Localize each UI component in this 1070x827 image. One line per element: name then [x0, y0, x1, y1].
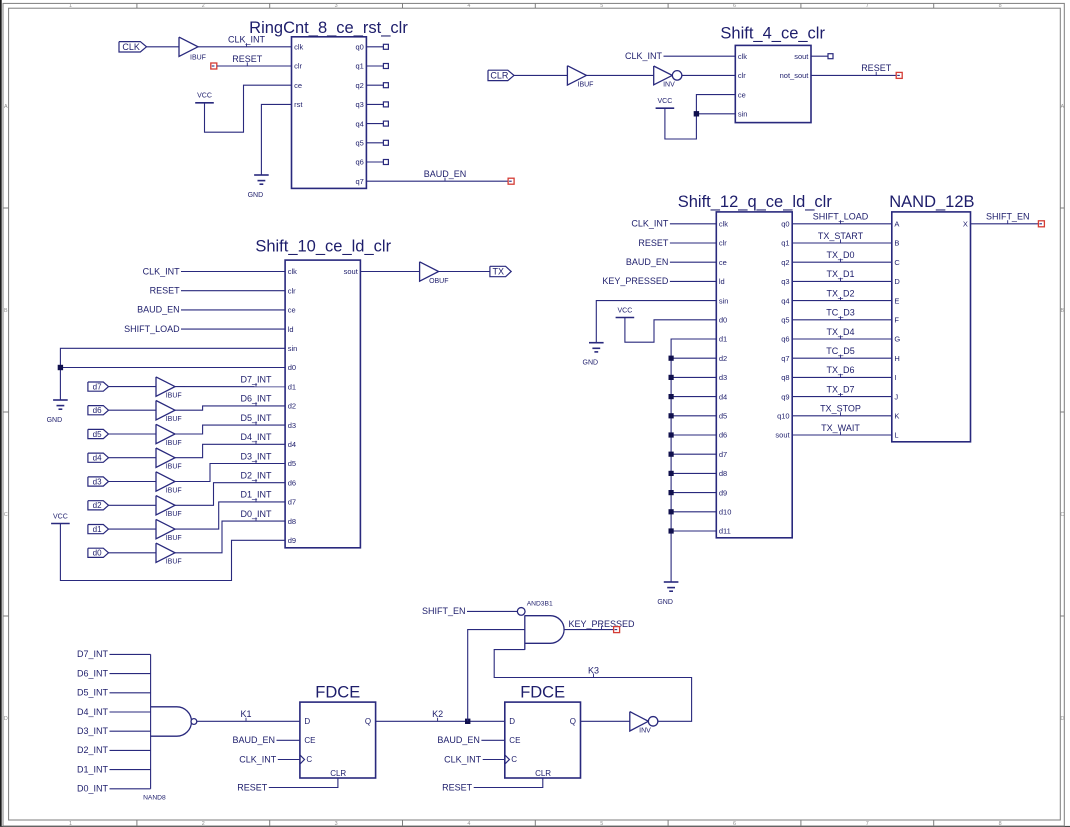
- wire NAND8 input bus: [150, 654, 152, 788]
- wire TX_WAIT net (qsout to L): [792, 434, 892, 436]
- svg-text:clr: clr: [738, 71, 746, 80]
- wire d11 stub: [671, 530, 716, 532]
- buffer OBUF: [420, 262, 439, 281]
- svg-text:CLK: CLK: [122, 42, 140, 52]
- svg-text:q4: q4: [781, 296, 789, 305]
- wire TX_D6 net (q8 to I): [792, 376, 892, 378]
- buffer IBUF (d2): [156, 496, 175, 515]
- svg-text:D0_INT: D0_INT: [240, 509, 272, 519]
- svg-text:6: 6: [733, 3, 736, 9]
- svg-text:IBUF: IBUF: [166, 535, 182, 542]
- wire SHIFT_EN net (X): [971, 223, 1039, 225]
- svg-text:RESET: RESET: [237, 782, 268, 792]
- svg-text:D: D: [304, 717, 310, 726]
- svg-text:sin: sin: [719, 296, 729, 305]
- wire KEY_PRESSED net: [564, 629, 613, 631]
- svg-text:RESET: RESET: [638, 238, 669, 248]
- svg-text:SHIFT_LOAD: SHIFT_LOAD: [124, 324, 180, 334]
- svg-text:d3: d3: [288, 421, 296, 430]
- block Shift_10_ce_ld_clr: [285, 260, 360, 548]
- svg-text:q4: q4: [355, 119, 363, 128]
- block RingCnt_8_ce_rst_clr: [292, 37, 367, 189]
- svg-text:5: 5: [600, 3, 603, 9]
- wire TX_D7 net (q9 to J): [792, 396, 892, 398]
- svg-text:D5_INT: D5_INT: [240, 413, 272, 423]
- svg-text:q5: q5: [355, 139, 363, 148]
- input connector d6: [88, 406, 109, 415]
- svg-text:CLR: CLR: [535, 769, 551, 778]
- svg-text:BAUD_EN: BAUD_EN: [137, 305, 180, 315]
- junction (d11): [669, 528, 674, 533]
- svg-text:6: 6: [733, 821, 736, 827]
- svg-text:4: 4: [467, 3, 470, 9]
- input connector d7: [88, 382, 109, 391]
- svg-text:CLK_INT: CLK_INT: [625, 51, 663, 61]
- wire K3 net: [494, 650, 691, 722]
- wire d2 to IBUF: [109, 504, 157, 506]
- svg-text:GND: GND: [583, 360, 599, 367]
- svg-text:B: B: [4, 308, 8, 314]
- svg-text:TX_WAIT: TX_WAIT: [821, 423, 860, 433]
- svg-text:VCC: VCC: [658, 98, 673, 105]
- svg-text:d11: d11: [719, 527, 731, 536]
- svg-text:SHIFT_EN: SHIFT_EN: [422, 606, 466, 616]
- svg-text:d6: d6: [288, 478, 296, 487]
- wire RESET to clr: [217, 65, 292, 67]
- wire sin to GND (Shift_12): [596, 301, 716, 343]
- buffer IBUF (d6): [156, 401, 175, 420]
- svg-text:D: D: [1060, 716, 1064, 722]
- block NAND_12B: [892, 212, 971, 442]
- svg-text:NAND8: NAND8: [143, 794, 166, 801]
- svg-text:d0: d0: [93, 549, 102, 558]
- svg-text:q7: q7: [355, 177, 363, 186]
- wire SHIFT_LOAD net (q0 to A): [792, 223, 892, 225]
- svg-text:D2_INT: D2_INT: [77, 745, 109, 755]
- junction (d10): [669, 509, 674, 514]
- wire Q to INV: [581, 720, 630, 722]
- svg-text:IBUF: IBUF: [166, 559, 182, 566]
- svg-text:d4: d4: [93, 454, 102, 463]
- buffer IBUF (d5): [156, 424, 175, 443]
- wire sin stub: [696, 113, 735, 115]
- svg-text:Q: Q: [365, 717, 371, 726]
- svg-text:q6: q6: [355, 158, 363, 167]
- svg-text:D5_INT: D5_INT: [77, 688, 109, 698]
- terminal RESET (red): [211, 63, 217, 69]
- svg-text:d9: d9: [719, 488, 727, 497]
- buffer IBUF (d1): [156, 519, 175, 538]
- svg-text:d4: d4: [288, 440, 296, 449]
- svg-text:clr: clr: [288, 286, 296, 295]
- wire D4_INT net: [175, 444, 285, 457]
- svg-text:TX_STOP: TX_STOP: [820, 404, 861, 414]
- svg-text:clr: clr: [719, 239, 727, 248]
- svg-text:ce: ce: [719, 258, 727, 267]
- svg-text:GND: GND: [47, 417, 63, 424]
- output connector TX: [490, 266, 511, 276]
- svg-text:d1: d1: [93, 525, 102, 534]
- buffer IBUF (d0): [156, 543, 175, 562]
- junction (Shift_10 d0): [58, 365, 63, 370]
- input connector CLK: [119, 42, 147, 52]
- wire TX_D2 net (q4 to E): [792, 300, 892, 302]
- svg-text:D3_INT: D3_INT: [77, 726, 109, 736]
- input connector d5: [88, 429, 109, 438]
- gate AND3B1: [517, 608, 525, 616]
- svg-text:IBUF: IBUF: [190, 54, 206, 61]
- svg-text:1: 1: [69, 821, 72, 827]
- svg-text:not_sout: not_sout: [780, 71, 810, 80]
- wire sout stub: [811, 55, 828, 57]
- wire d6 stub: [671, 434, 716, 436]
- svg-text:BAUD_EN: BAUD_EN: [626, 257, 669, 267]
- svg-text:VCC: VCC: [53, 513, 68, 520]
- svg-text:D6_INT: D6_INT: [77, 668, 109, 678]
- wire K1 net: [197, 720, 300, 722]
- svg-text:d7: d7: [93, 382, 102, 391]
- wire K2 to AND3B1 in2: [468, 630, 525, 722]
- wire VCC to d0: [625, 318, 716, 343]
- svg-text:ce: ce: [294, 81, 302, 90]
- junction (d9): [669, 490, 674, 495]
- svg-text:CLR: CLR: [330, 769, 346, 778]
- svg-text:IBUF: IBUF: [166, 464, 182, 471]
- svg-text:X: X: [963, 220, 968, 229]
- wire d4 stub: [671, 396, 716, 398]
- svg-text:d2: d2: [719, 354, 727, 363]
- wire TC_D5 net (q7 to H): [792, 357, 892, 359]
- wire q0 stub: [366, 46, 383, 48]
- input connector d4: [88, 453, 109, 462]
- svg-text:F: F: [894, 316, 899, 325]
- wire d2 stub: [671, 357, 716, 359]
- wire d1 to IBUF: [109, 528, 157, 530]
- svg-text:q8: q8: [781, 373, 789, 382]
- svg-text:TX: TX: [492, 267, 504, 277]
- flip-flop FDCE U2: [505, 702, 581, 778]
- wire d0 to GND rail: [60, 367, 285, 369]
- svg-text:IBUF: IBUF: [166, 416, 182, 423]
- wire INV to clr: [682, 74, 735, 76]
- terminal q4: [383, 121, 388, 126]
- svg-text:VCC: VCC: [618, 307, 633, 314]
- svg-text:d2: d2: [288, 402, 296, 411]
- power VCC (Shift_10 d9): [51, 523, 70, 525]
- svg-text:Shift_12_q_ce_ld_clr: Shift_12_q_ce_ld_clr: [678, 193, 833, 211]
- svg-text:D: D: [894, 277, 900, 286]
- svg-text:D7_INT: D7_INT: [240, 375, 272, 385]
- wire q2 stub: [366, 84, 383, 86]
- svg-text:IBUF: IBUF: [166, 440, 182, 447]
- svg-text:clk: clk: [294, 43, 303, 52]
- terminal q2: [383, 83, 388, 88]
- wire TC_D3 net (q5 to F): [792, 319, 892, 321]
- svg-text:K: K: [894, 412, 899, 421]
- svg-text:BAUD_EN: BAUD_EN: [437, 735, 480, 745]
- svg-text:d5: d5: [288, 459, 296, 468]
- junction (d7): [669, 452, 674, 457]
- svg-text:d0: d0: [719, 316, 727, 325]
- svg-text:TX_D1: TX_D1: [826, 269, 854, 279]
- svg-text:sout: sout: [344, 267, 359, 276]
- wire BAUD_EN net (q7): [366, 180, 508, 182]
- svg-text:CLR: CLR: [490, 71, 509, 81]
- svg-text:A: A: [1060, 104, 1064, 110]
- svg-text:q7: q7: [781, 354, 789, 363]
- svg-text:E: E: [894, 296, 899, 305]
- svg-text:C: C: [894, 258, 900, 267]
- svg-text:D4_INT: D4_INT: [77, 707, 109, 717]
- wire q6 stub: [366, 161, 383, 163]
- svg-text:SHIFT_LOAD: SHIFT_LOAD: [813, 212, 869, 222]
- svg-text:B: B: [1060, 308, 1064, 314]
- svg-text:3: 3: [335, 821, 338, 827]
- svg-text:RingCnt_8_ce_rst_clr: RingCnt_8_ce_rst_clr: [249, 19, 408, 37]
- input connector CLR: [488, 70, 514, 80]
- junction (d2): [669, 356, 674, 361]
- svg-text:d6: d6: [93, 406, 102, 415]
- svg-text:BAUD_EN: BAUD_EN: [232, 735, 275, 745]
- svg-text:ld: ld: [719, 277, 725, 286]
- svg-text:TX_D7: TX_D7: [826, 384, 854, 394]
- svg-text:d5: d5: [93, 430, 102, 439]
- svg-text:CLK_INT: CLK_INT: [239, 754, 277, 764]
- svg-text:2: 2: [202, 821, 205, 827]
- svg-text:q3: q3: [781, 277, 789, 286]
- svg-text:d6: d6: [719, 431, 727, 440]
- svg-text:q5: q5: [781, 316, 789, 325]
- wire VCC to d9: [60, 524, 285, 581]
- svg-text:CE: CE: [304, 736, 315, 745]
- svg-text:IBUF: IBUF: [166, 511, 182, 518]
- svg-text:1: 1: [69, 3, 72, 9]
- wire d0 to IBUF: [109, 552, 157, 554]
- svg-text:GND: GND: [657, 599, 673, 606]
- svg-text:INV: INV: [663, 82, 675, 89]
- wire TX_D0 net (q2 to C): [792, 261, 892, 263]
- svg-text:q6: q6: [781, 335, 789, 344]
- svg-text:H: H: [894, 354, 899, 363]
- wire VCC / ce / sin: [665, 95, 735, 139]
- junction (d5): [669, 413, 674, 418]
- svg-text:q0: q0: [781, 220, 789, 229]
- buffer IBUF (d7): [156, 377, 175, 396]
- svg-text:C: C: [511, 755, 517, 764]
- svg-text:clk: clk: [719, 220, 728, 229]
- svg-text:FDCE: FDCE: [315, 684, 360, 702]
- input connector d2: [88, 501, 109, 510]
- svg-text:D2_INT: D2_INT: [240, 471, 272, 481]
- svg-text:OBUF: OBUF: [429, 278, 448, 285]
- wire VCC to ce: [205, 85, 292, 132]
- wire D2_INT net: [175, 483, 285, 506]
- ground GND (Shift_12 d bus): [664, 581, 679, 583]
- svg-text:sout: sout: [775, 431, 790, 440]
- wire CLK_INT net: [198, 46, 292, 48]
- svg-text:D7_INT: D7_INT: [77, 649, 109, 659]
- wire D1_INT net: [175, 502, 285, 529]
- block Shift_12_q_ce_ld_clr: [716, 212, 792, 538]
- svg-text:7: 7: [866, 821, 869, 827]
- wire OBUF to TX: [439, 271, 490, 273]
- svg-text:TX_START: TX_START: [818, 231, 864, 241]
- svg-text:q1: q1: [781, 239, 789, 248]
- wire d3 stub: [671, 376, 716, 378]
- input connector d1: [88, 525, 109, 534]
- terminal q1: [383, 64, 388, 69]
- svg-text:8: 8: [999, 3, 1002, 9]
- svg-text:q10: q10: [777, 412, 790, 421]
- svg-text:q1: q1: [355, 62, 363, 71]
- svg-text:d8: d8: [288, 517, 296, 526]
- svg-text:D3_INT: D3_INT: [240, 451, 272, 461]
- wire IBUF to INV: [586, 74, 653, 76]
- svg-text:d8: d8: [719, 469, 727, 478]
- terminal q6: [383, 160, 388, 165]
- svg-text:sin: sin: [288, 344, 298, 353]
- wire sin to GND rail: [60, 348, 285, 400]
- svg-text:q2: q2: [355, 81, 363, 90]
- svg-text:IBUF: IBUF: [166, 393, 182, 400]
- svg-text:Shift_4_ce_clr: Shift_4_ce_clr: [720, 25, 825, 43]
- svg-text:8: 8: [999, 821, 1002, 827]
- svg-text:NAND_12B: NAND_12B: [889, 193, 974, 211]
- input connector d3: [88, 477, 109, 486]
- svg-text:J: J: [894, 392, 898, 401]
- svg-text:4: 4: [467, 821, 470, 827]
- svg-text:K1: K1: [240, 709, 251, 719]
- svg-text:VCC: VCC: [197, 93, 212, 100]
- svg-text:AND3B1: AND3B1: [527, 601, 553, 608]
- terminal BAUD_EN (red): [508, 178, 514, 184]
- junction (Shift_4 sin): [694, 111, 699, 116]
- svg-text:G: G: [894, 335, 900, 344]
- svg-text:q3: q3: [355, 100, 363, 109]
- svg-text:d1: d1: [288, 382, 296, 391]
- terminal SHIFT_EN (red): [1038, 221, 1044, 227]
- wire D7_INT net: [175, 386, 285, 388]
- svg-text:TX_D4: TX_D4: [826, 327, 854, 337]
- inverter INV (CLR path): [654, 66, 673, 85]
- svg-text:FDCE: FDCE: [520, 684, 565, 702]
- svg-text:sin: sin: [738, 110, 748, 119]
- svg-text:TX_D6: TX_D6: [826, 365, 854, 375]
- flip-flop FDCE U1: [300, 702, 376, 778]
- terminal q0: [383, 44, 388, 49]
- svg-text:C: C: [4, 512, 8, 518]
- terminal sout: [828, 54, 833, 59]
- wire D6_INT net: [175, 406, 285, 410]
- svg-text:d3: d3: [93, 477, 102, 486]
- svg-text:RESET: RESET: [442, 782, 473, 792]
- wire d8 stub: [671, 472, 716, 474]
- svg-text:RESET: RESET: [232, 54, 263, 64]
- ground GND (Shift_10): [53, 399, 68, 401]
- svg-text:TX_D0: TX_D0: [826, 250, 854, 260]
- wire d5 stub: [671, 415, 716, 417]
- svg-text:TX_D2: TX_D2: [826, 288, 854, 298]
- svg-text:I: I: [894, 373, 896, 382]
- svg-text:d7: d7: [719, 450, 727, 459]
- junction (d3): [669, 375, 674, 380]
- svg-text:C: C: [306, 755, 312, 764]
- wire CLK to IBUF: [147, 46, 180, 48]
- wire sout to OBUF: [360, 271, 419, 273]
- power VCC (Shift_4): [656, 107, 675, 109]
- buffer IBUF (CLR): [567, 66, 586, 85]
- buffer IBUF (CLK): [179, 37, 198, 56]
- svg-text:D6_INT: D6_INT: [240, 394, 272, 404]
- svg-text:5: 5: [600, 821, 603, 827]
- svg-text:GND: GND: [248, 192, 264, 199]
- wire TX_STOP net (q10 to K): [792, 415, 892, 417]
- svg-text:d5: d5: [719, 412, 727, 421]
- svg-text:ld: ld: [288, 325, 294, 334]
- svg-text:A: A: [894, 220, 899, 229]
- power VCC (Shift_12 d0): [616, 317, 635, 319]
- input connector d0: [88, 548, 109, 557]
- svg-text:D0_INT: D0_INT: [77, 784, 109, 794]
- wire q1 stub: [366, 65, 383, 67]
- svg-text:IBUF: IBUF: [578, 82, 594, 89]
- svg-text:clr: clr: [294, 62, 302, 71]
- wire rst to GND: [261, 104, 291, 175]
- terminal q5: [383, 140, 388, 145]
- svg-text:D: D: [509, 717, 515, 726]
- wire D0_INT net: [175, 521, 285, 553]
- junction (d6): [669, 432, 674, 437]
- wire d9 stub: [671, 492, 716, 494]
- svg-text:CLK_INT: CLK_INT: [631, 219, 669, 229]
- wire d7 to IBUF: [109, 386, 157, 388]
- svg-text:CE: CE: [509, 736, 520, 745]
- wire TX_D1 net (q3 to D): [792, 280, 892, 282]
- wire D5_INT net: [175, 425, 285, 434]
- wire d5 to IBUF: [109, 433, 157, 435]
- svg-text:D: D: [4, 716, 8, 722]
- svg-text:C: C: [1060, 512, 1064, 518]
- svg-text:B: B: [894, 239, 899, 248]
- svg-text:clk: clk: [738, 52, 747, 61]
- wire q4 stub: [366, 123, 383, 125]
- wire q5 stub: [366, 142, 383, 144]
- svg-text:7: 7: [866, 3, 869, 9]
- block Shift_4_ce_clr: [735, 45, 811, 122]
- gate NAND8: [151, 707, 192, 736]
- svg-text:K2: K2: [432, 709, 443, 719]
- wire D3_INT net: [175, 464, 285, 482]
- wire TX_D4 net (q6 to G): [792, 338, 892, 340]
- svg-text:D4_INT: D4_INT: [240, 432, 272, 442]
- junction (d4): [669, 394, 674, 399]
- wire d7 stub: [671, 453, 716, 455]
- svg-text:q0: q0: [355, 43, 363, 52]
- wire TX_START net (q1 to B): [792, 242, 892, 244]
- svg-text:D1_INT: D1_INT: [77, 764, 109, 774]
- svg-text:clk: clk: [288, 267, 297, 276]
- svg-text:TC_D3: TC_D3: [826, 308, 855, 318]
- svg-text:3: 3: [335, 3, 338, 9]
- svg-text:2: 2: [202, 3, 205, 9]
- svg-text:TC_D5: TC_D5: [826, 346, 855, 356]
- svg-text:Shift_10_ce_ld_clr: Shift_10_ce_ld_clr: [255, 237, 391, 255]
- svg-text:BAUD_EN: BAUD_EN: [424, 169, 467, 179]
- svg-text:d0: d0: [288, 363, 296, 372]
- svg-text:rst: rst: [294, 100, 303, 109]
- svg-text:L: L: [894, 431, 898, 440]
- svg-text:RESET: RESET: [861, 63, 892, 73]
